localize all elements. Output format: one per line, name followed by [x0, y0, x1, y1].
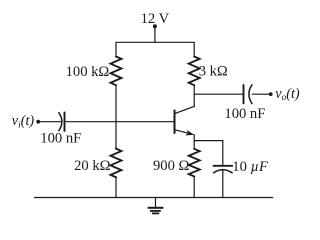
- label 12 V: [141, 11, 170, 27]
- wire right branch collector: [193, 85, 195, 106]
- transistor Q1 collector lead: [175, 106, 194, 113]
- capacitor C1 100 nF input: [59, 113, 65, 131]
- wire left branch middle: [115, 85, 117, 148]
- label 10 uF: [232, 159, 269, 175]
- capacitor C2 100 nF output: [244, 85, 252, 104]
- label 3 kOhm: [199, 63, 228, 79]
- transistor Q1 base bar: [174, 111, 176, 133]
- wire cap branch top: [222, 141, 224, 165]
- wire supply stub: [154, 26, 156, 42]
- svg-text:3 kΩ: 3 kΩ: [199, 63, 228, 79]
- resistor R2 20 kOhm: [111, 149, 122, 178]
- label 100 nF output: [224, 106, 265, 122]
- wire bottom rail: [35, 197, 273, 199]
- label vi(t): [12, 113, 35, 130]
- svg-text:vi(t): vi(t): [12, 113, 35, 130]
- svg-text:100 nF: 100 nF: [40, 130, 81, 146]
- wire output collector to cap: [194, 93, 243, 95]
- svg-text:900 Ω: 900 Ω: [153, 158, 190, 174]
- label 100 nF input: [40, 130, 81, 146]
- wire input lead: [38, 121, 61, 123]
- wire left branch bottom: [115, 177, 117, 197]
- wire R4 bottom: [193, 177, 195, 198]
- svg-text:100 kΩ: 100 kΩ: [66, 64, 110, 80]
- label 20 kOhm: [74, 158, 111, 174]
- label vo(t): [275, 86, 300, 103]
- capacitor C3 10 uF: [214, 166, 232, 173]
- resistor R3 3 kOhm: [189, 57, 200, 86]
- wire emitter node horizontal: [194, 140, 223, 142]
- transistor Q1 emitter lead with arrow: [175, 130, 194, 141]
- node input terminal dot: [36, 120, 40, 124]
- svg-text:100 nF: 100 nF: [224, 106, 265, 122]
- resistor R1 100 kOhm: [111, 57, 122, 86]
- resistor R4 900 Ohm: [189, 149, 200, 177]
- wire base: [65, 121, 174, 123]
- label 900 Ohm: [153, 158, 190, 174]
- svg-text:20 kΩ: 20 kΩ: [74, 158, 111, 174]
- node output terminal dot: [269, 92, 273, 96]
- wire cap branch bottom: [222, 170, 224, 198]
- svg-text:vo(t): vo(t): [275, 86, 300, 103]
- ground: [149, 198, 163, 214]
- wire emitter to R4: [193, 141, 195, 149]
- svg-text:10 µF: 10 µF: [232, 159, 269, 175]
- wire top rail: [116, 42, 194, 56]
- label 100 kOhm: [66, 64, 110, 80]
- node supply terminal dot: [153, 24, 157, 28]
- wire output to terminal: [252, 93, 270, 95]
